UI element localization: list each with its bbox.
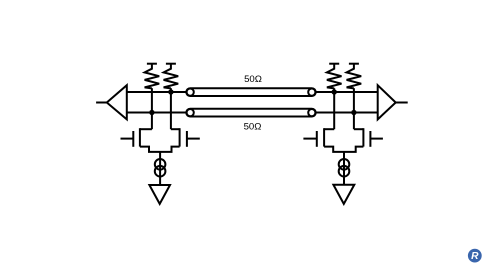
logo badge (blue circle with R) (468, 249, 482, 263)
node: junction D on bottom line (351, 110, 356, 115)
wire: output lead from right buffer (396, 102, 408, 104)
wire: top line, right segment (316, 91, 378, 93)
node: junction C on top line (332, 89, 337, 94)
wire: right pair source bus (324, 147, 363, 152)
wire: right tail to ground (343, 152, 345, 185)
wire: column D (R4 to Q4 drain) (353, 88, 355, 129)
wire: column B (R2 to Q2 drain) (170, 88, 172, 129)
transistor Q3 (right pair, left NMOS) (303, 128, 334, 147)
op-amp U1 (left buffer, points left) (107, 85, 127, 119)
transistor Q2 (left pair, right NMOS) (171, 128, 200, 147)
wire: column C (R3 to Q3 drain) (333, 88, 335, 129)
transmission line T1 (top, 50 ohm) (186, 88, 315, 96)
wire: left pair source bus (140, 147, 180, 152)
ground (left) (149, 185, 170, 204)
current source I1 (155, 159, 166, 177)
wire: top line, left segment (127, 91, 187, 93)
svg-text:50Ω: 50Ω (244, 122, 262, 133)
transistor Q4 (right pair, right NMOS) (354, 128, 383, 147)
ground (right) (333, 185, 354, 204)
svg-text:R: R (471, 251, 479, 262)
op-amp U2 (right buffer, points right) (378, 85, 396, 119)
wire: bottom line, left segment (127, 112, 187, 114)
current source I2 (339, 159, 350, 177)
node: junction B on top line (168, 89, 173, 94)
wire: input lead to left buffer (96, 102, 107, 104)
wire: left tail to ground (159, 152, 161, 185)
wire: column A (R1 to Q1 drain) (151, 88, 153, 129)
transmission line T2 (bottom, 50 ohm) (186, 109, 315, 117)
svg-text:50Ω: 50Ω (244, 74, 262, 85)
wire: bottom line, right segment (316, 112, 378, 114)
resistor R3 (right termination C) (327, 64, 342, 89)
transistor Q1 (left pair, left NMOS) (121, 128, 152, 147)
node: junction A on bottom line (149, 110, 154, 115)
resistor R1 (left termination A) (145, 64, 160, 89)
resistor R2 (left termination B) (164, 64, 179, 89)
resistor R4 (right termination D) (347, 64, 362, 89)
